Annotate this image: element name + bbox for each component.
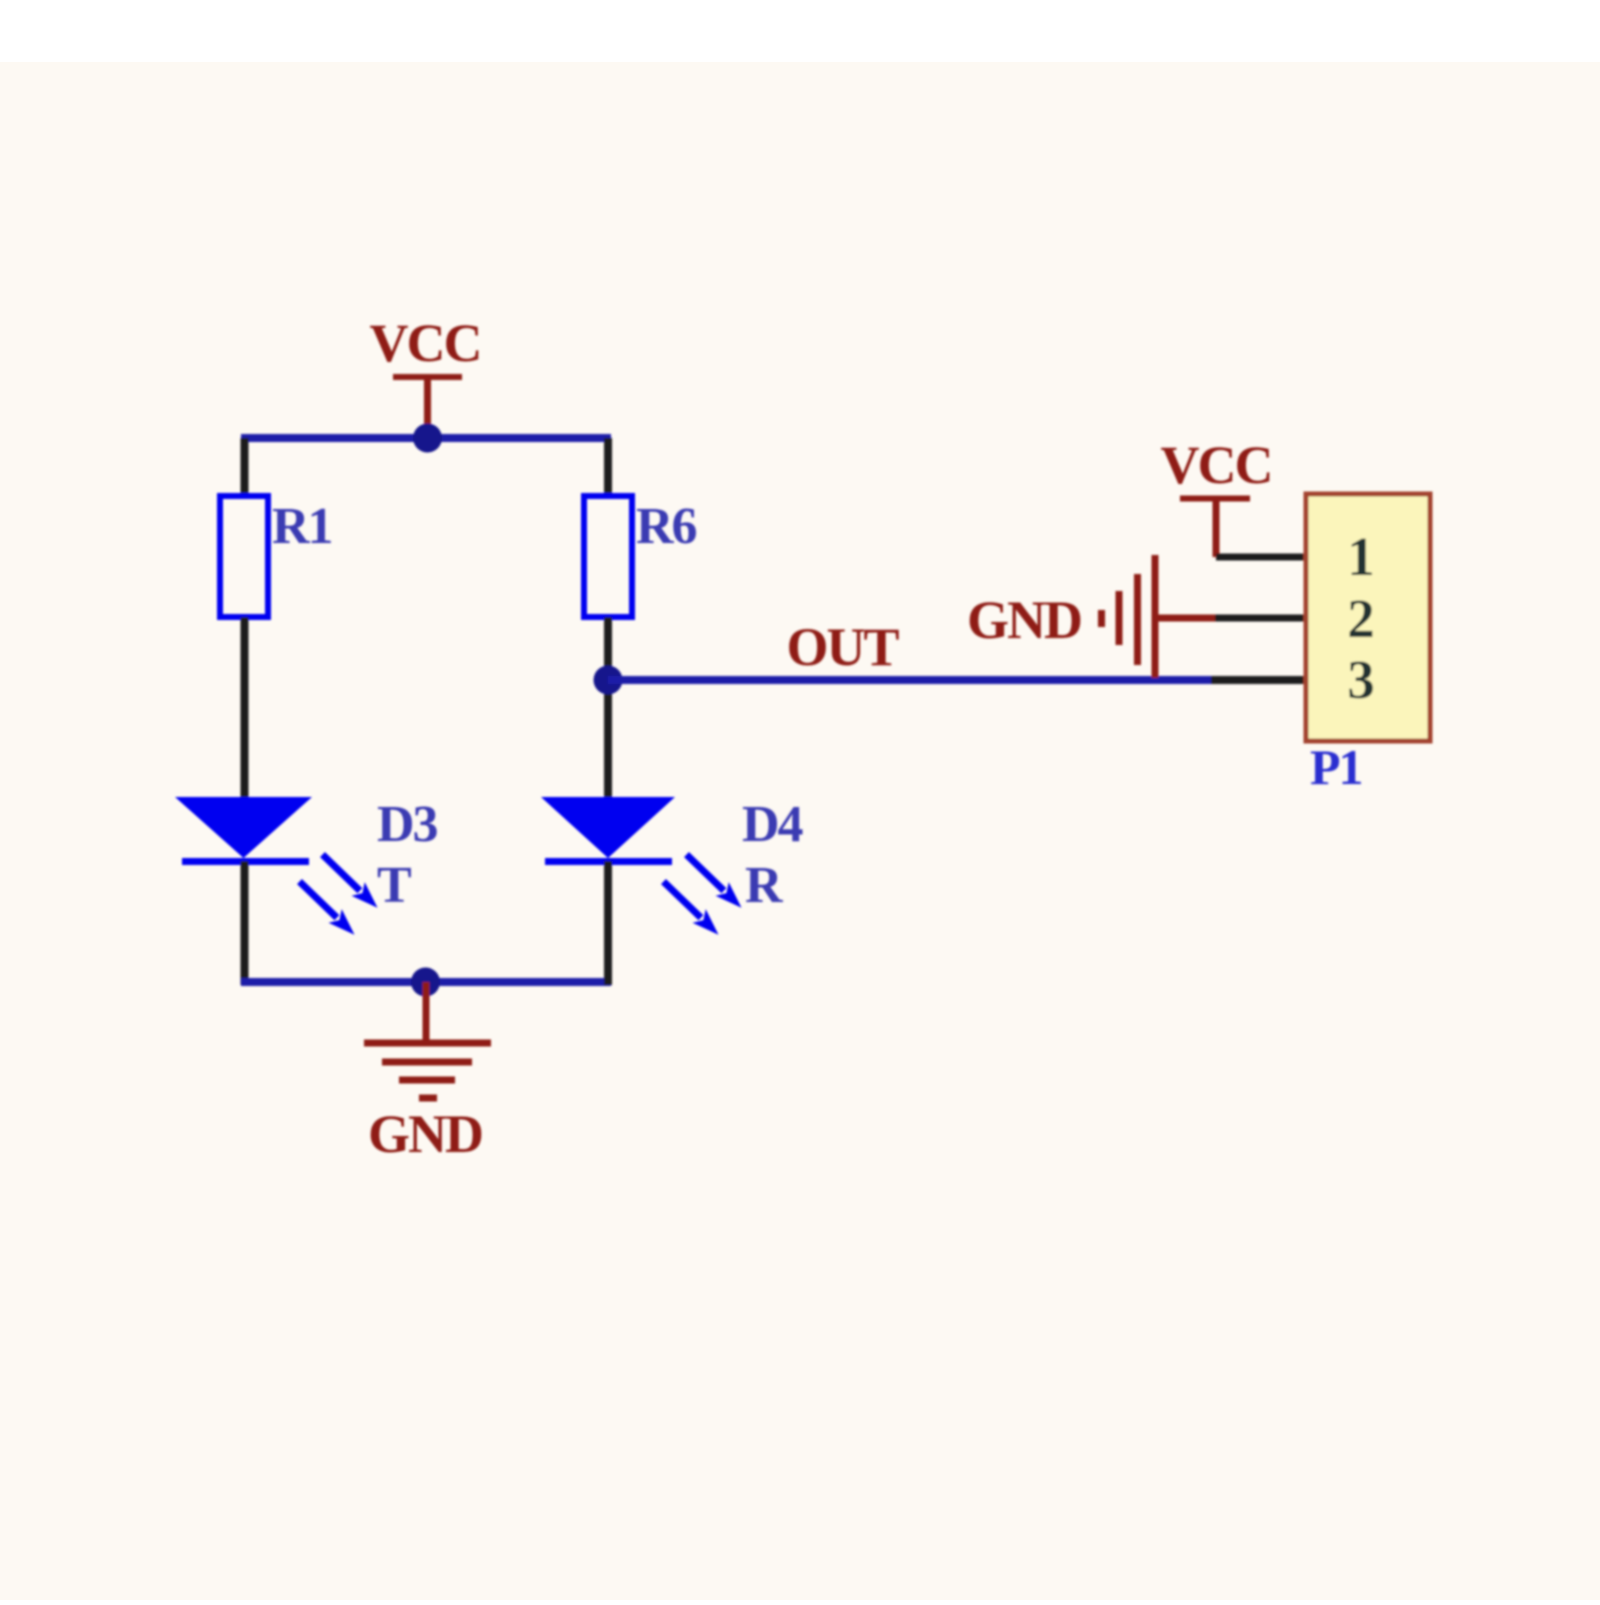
svg-text:GND: GND bbox=[368, 1104, 482, 1164]
svg-text:T: T bbox=[377, 857, 411, 914]
svg-text:3: 3 bbox=[1347, 649, 1375, 710]
svg-text:D4: D4 bbox=[742, 796, 804, 853]
svg-text:2: 2 bbox=[1347, 588, 1375, 649]
svg-text:R: R bbox=[745, 857, 784, 914]
svg-text:VCC: VCC bbox=[370, 313, 481, 373]
svg-text:R6: R6 bbox=[636, 498, 697, 555]
svg-text:P1: P1 bbox=[1310, 739, 1362, 795]
svg-text:VCC: VCC bbox=[1161, 435, 1272, 495]
svg-text:OUT: OUT bbox=[786, 617, 899, 677]
svg-text:D3: D3 bbox=[377, 796, 438, 853]
svg-text:GND: GND bbox=[967, 590, 1081, 650]
svg-text:1: 1 bbox=[1347, 526, 1375, 587]
svg-text:R1: R1 bbox=[272, 498, 332, 555]
